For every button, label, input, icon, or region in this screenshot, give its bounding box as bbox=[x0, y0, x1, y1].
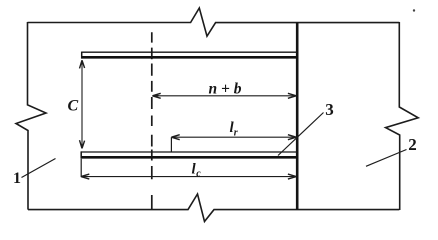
svg-text:3: 3 bbox=[325, 100, 334, 119]
dimension n+b arrow right bbox=[288, 93, 296, 98]
leader line for label 1 bbox=[22, 159, 56, 178]
panel top edge with break symbol bbox=[28, 8, 400, 36]
dimension lr line bbox=[172, 136, 296, 138]
top bar: thin upper line bbox=[82, 51, 298, 53]
top bar left end cap bbox=[81, 52, 83, 59]
dashed centerline axis bbox=[151, 32, 153, 209]
solid joint line (edge of support) bbox=[296, 23, 299, 210]
svg-text:c: c bbox=[196, 169, 201, 180]
dimension n+b arrow left bbox=[152, 93, 160, 98]
ink speck top right bbox=[413, 9, 415, 11]
svg-text:1: 1 bbox=[13, 170, 21, 187]
dimension lc extension line bbox=[80, 159, 82, 177]
dimension C vertical line bbox=[81, 61, 83, 148]
dimension n+b line bbox=[153, 95, 296, 97]
dimension lr arrow left bbox=[171, 135, 179, 140]
top bar: thick lower line bbox=[82, 56, 298, 59]
svg-text:r: r bbox=[234, 128, 238, 139]
dimension lc arrow left bbox=[81, 174, 89, 179]
dimension C arrow up bbox=[80, 60, 85, 68]
svg-text:2: 2 bbox=[408, 135, 417, 154]
dimension lr arrow right bbox=[288, 135, 296, 140]
bottom bar left end cap bbox=[80, 151, 82, 158]
svg-text:C: C bbox=[68, 97, 79, 114]
bottom bar: thick lower line bbox=[81, 156, 297, 159]
bottom bar: thin upper line bbox=[81, 151, 297, 153]
dimension C arrow down bbox=[80, 140, 85, 148]
leader line for label 2 bbox=[366, 150, 407, 167]
panel bottom edge with break symbol bbox=[28, 194, 399, 222]
panel left edge with break symbol bbox=[16, 22, 46, 210]
dimension lr extension line bbox=[170, 137, 172, 152]
leader line for label 3 bbox=[278, 113, 324, 156]
panel right edge with break symbol bbox=[386, 22, 419, 210]
svg-text:n + b: n + b bbox=[209, 81, 242, 98]
dimension lc arrow right bbox=[288, 174, 296, 179]
dimension lc line bbox=[82, 176, 296, 178]
